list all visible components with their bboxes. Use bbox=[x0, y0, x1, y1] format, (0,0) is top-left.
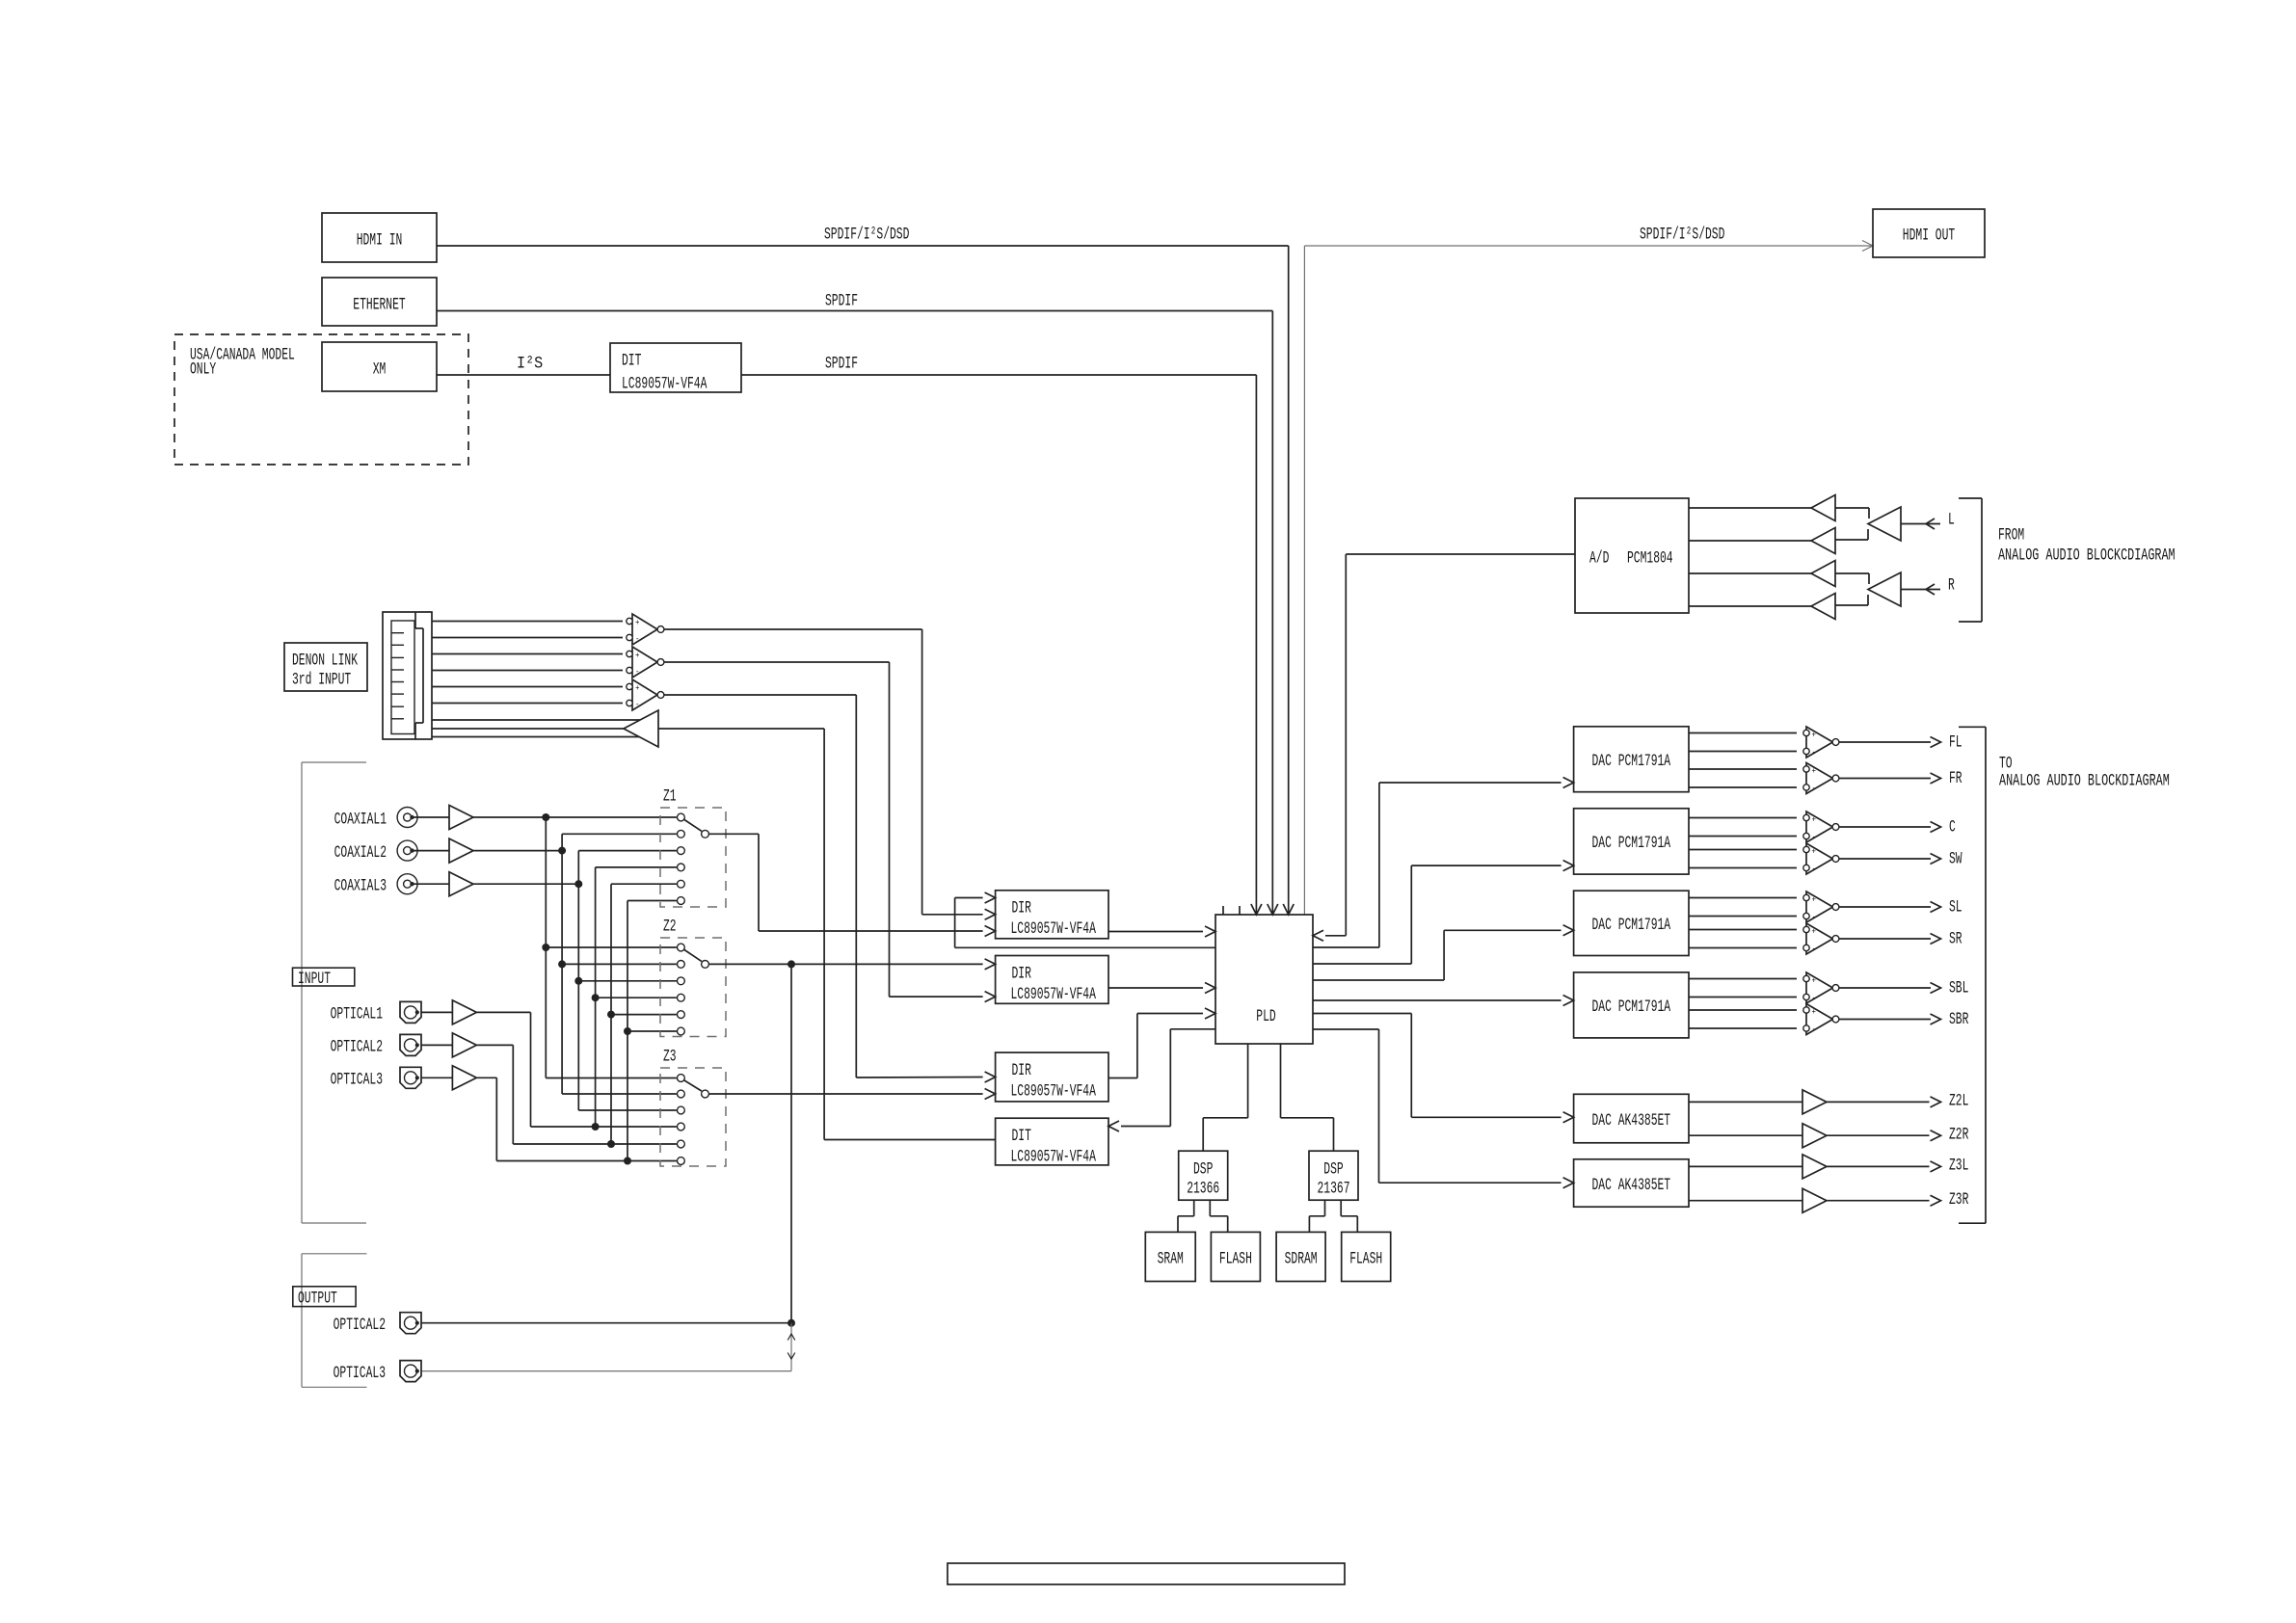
svg-text:LC89057W-VF4A: LC89057W-VF4A bbox=[1011, 919, 1097, 939]
svg-text:SBL: SBL bbox=[1949, 978, 1968, 998]
svg-text:-: - bbox=[1812, 865, 1817, 873]
svg-text:+: + bbox=[1812, 847, 1817, 856]
svg-text:Z1: Z1 bbox=[663, 786, 677, 806]
svg-text:DSP: DSP bbox=[1193, 1159, 1213, 1179]
svg-text:OPTICAL3: OPTICAL3 bbox=[334, 1364, 386, 1383]
svg-text:+: + bbox=[1812, 731, 1817, 739]
svg-text:ANALOG AUDIO BLOCKDIAGRAM: ANALOG AUDIO BLOCKDIAGRAM bbox=[1999, 771, 2170, 790]
svg-text:FROM: FROM bbox=[1998, 525, 2024, 545]
svg-text:+: + bbox=[1812, 976, 1817, 985]
svg-text:DIT: DIT bbox=[622, 351, 641, 370]
svg-text:-: - bbox=[635, 701, 640, 709]
svg-text:-: - bbox=[1812, 945, 1817, 953]
svg-text:SR: SR bbox=[1949, 929, 1962, 948]
svg-text:-: - bbox=[635, 668, 640, 677]
svg-text:PCM1804: PCM1804 bbox=[1627, 548, 1673, 568]
svg-text:HDMI OUT: HDMI OUT bbox=[1903, 226, 1955, 245]
svg-text:TO: TO bbox=[1999, 754, 2013, 773]
svg-text:DAC PCM1791A: DAC PCM1791A bbox=[1592, 752, 1671, 771]
svg-text:Z3: Z3 bbox=[663, 1047, 677, 1066]
svg-text:DSP: DSP bbox=[1323, 1159, 1343, 1179]
svg-text:ONLY: ONLY bbox=[190, 359, 217, 379]
svg-text:FR: FR bbox=[1949, 769, 1962, 788]
svg-text:OPTICAL1: OPTICAL1 bbox=[331, 1005, 383, 1024]
svg-text:+: + bbox=[635, 684, 640, 693]
svg-text:-: - bbox=[635, 635, 640, 644]
svg-text:LC89057W-VF4A: LC89057W-VF4A bbox=[1011, 1081, 1097, 1101]
svg-text:FL: FL bbox=[1949, 732, 1962, 752]
svg-text:XM: XM bbox=[373, 359, 387, 379]
svg-text:+: + bbox=[635, 652, 640, 660]
svg-text:LC89057W-VF4A: LC89057W-VF4A bbox=[622, 374, 707, 393]
svg-text:21366: 21366 bbox=[1187, 1179, 1219, 1198]
svg-text:DAC AK4385ET: DAC AK4385ET bbox=[1592, 1111, 1671, 1131]
svg-text:DIR: DIR bbox=[1012, 964, 1032, 983]
svg-text:OPTICAL2: OPTICAL2 bbox=[331, 1038, 383, 1057]
svg-text:SPDIF: SPDIF bbox=[825, 291, 858, 310]
svg-text:FLASH: FLASH bbox=[1219, 1249, 1252, 1268]
svg-text:+: + bbox=[1812, 815, 1817, 824]
svg-text:DIT: DIT bbox=[1012, 1127, 1031, 1146]
svg-text:-: - bbox=[1812, 833, 1817, 841]
svg-text:ETHERNET: ETHERNET bbox=[353, 295, 405, 314]
svg-text:R: R bbox=[1948, 575, 1955, 595]
svg-text:I²S: I²S bbox=[517, 354, 543, 373]
svg-text:COAXIAL3: COAXIAL3 bbox=[334, 877, 387, 896]
svg-text:HDMI IN: HDMI IN bbox=[357, 230, 403, 250]
svg-text:SBR: SBR bbox=[1949, 1010, 1969, 1029]
svg-text:-: - bbox=[1812, 1025, 1817, 1034]
svg-text:SRAM: SRAM bbox=[1158, 1249, 1184, 1268]
svg-text:INPUT: INPUT bbox=[298, 970, 331, 989]
svg-text:DAC PCM1791A: DAC PCM1791A bbox=[1592, 834, 1671, 853]
svg-text:OPTICAL2: OPTICAL2 bbox=[334, 1316, 386, 1335]
svg-text:LC89057W-VF4A: LC89057W-VF4A bbox=[1011, 985, 1097, 1004]
svg-text:DIR: DIR bbox=[1012, 899, 1032, 918]
svg-text:LC89057W-VF4A: LC89057W-VF4A bbox=[1011, 1148, 1097, 1167]
svg-text:SPDIF/I²S/DSD: SPDIF/I²S/DSD bbox=[824, 225, 909, 244]
svg-text:+: + bbox=[635, 619, 640, 627]
svg-text:SDRAM: SDRAM bbox=[1285, 1249, 1318, 1268]
svg-text:COAXIAL1: COAXIAL1 bbox=[334, 810, 387, 829]
svg-text:C: C bbox=[1949, 817, 1956, 837]
svg-text:+: + bbox=[1812, 767, 1817, 776]
svg-text:SW: SW bbox=[1949, 849, 1962, 868]
svg-text:+: + bbox=[1812, 927, 1817, 936]
svg-text:OUTPUT: OUTPUT bbox=[298, 1289, 337, 1308]
svg-text:Z3L: Z3L bbox=[1949, 1157, 1968, 1176]
svg-text:Z2L: Z2L bbox=[1949, 1092, 1968, 1111]
svg-text:DIR: DIR bbox=[1012, 1061, 1032, 1080]
svg-text:Z2: Z2 bbox=[663, 917, 677, 936]
svg-text:SPDIF/I²S/DSD: SPDIF/I²S/DSD bbox=[1640, 225, 1724, 244]
svg-text:ANALOG AUDIO BLOCKCDIAGRAM: ANALOG AUDIO BLOCKCDIAGRAM bbox=[1998, 545, 2176, 565]
svg-text:DAC AK4385ET: DAC AK4385ET bbox=[1592, 1176, 1671, 1195]
svg-text:Z3R: Z3R bbox=[1949, 1190, 1969, 1210]
svg-text:-: - bbox=[1812, 748, 1817, 757]
svg-text:L: L bbox=[1948, 510, 1955, 529]
svg-text:DENON LINK: DENON LINK bbox=[292, 651, 358, 670]
svg-text:DAC PCM1791A: DAC PCM1791A bbox=[1592, 998, 1671, 1017]
svg-text:FLASH: FLASH bbox=[1349, 1249, 1382, 1268]
svg-text:+: + bbox=[1812, 1008, 1817, 1017]
svg-text:-: - bbox=[1812, 913, 1817, 921]
svg-text:OPTICAL3: OPTICAL3 bbox=[331, 1071, 383, 1090]
svg-text:-: - bbox=[1812, 994, 1817, 1002]
svg-text:+: + bbox=[1812, 895, 1817, 904]
svg-text:SPDIF: SPDIF bbox=[825, 354, 858, 373]
svg-text:DAC PCM1791A: DAC PCM1791A bbox=[1592, 916, 1671, 935]
svg-text:Z2R: Z2R bbox=[1949, 1126, 1969, 1145]
svg-text:COAXIAL2: COAXIAL2 bbox=[334, 843, 387, 863]
svg-text:PLD: PLD bbox=[1256, 1007, 1275, 1026]
svg-text:SL: SL bbox=[1949, 897, 1962, 917]
svg-text:-: - bbox=[1812, 785, 1817, 793]
svg-text:21367: 21367 bbox=[1318, 1179, 1350, 1198]
svg-text:3rd INPUT: 3rd INPUT bbox=[292, 670, 351, 689]
svg-text:A/D: A/D bbox=[1589, 548, 1609, 568]
